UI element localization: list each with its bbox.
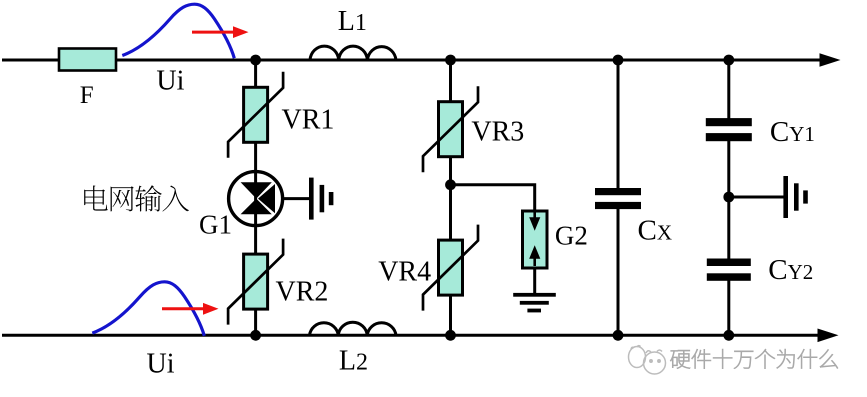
svg-text:L1: L1	[338, 6, 367, 37]
node CY top	[723, 55, 734, 66]
node mid junction VR3/VR4/G2	[445, 179, 456, 190]
svg-text:VR3: VR3	[471, 116, 524, 147]
node bottom-left junction	[250, 330, 261, 341]
svg-text:G1: G1	[199, 210, 232, 240]
surge waveform top (blue)	[122, 4, 234, 58]
fuse F	[59, 49, 116, 71]
wire CX vertical bottom	[617, 208, 620, 335]
gas discharge tube G1	[229, 172, 283, 226]
varistor VR1	[228, 72, 283, 158]
node bottom-mid junction	[445, 330, 456, 341]
gas discharge tube G2	[523, 211, 548, 268]
wire VR4 to bottom	[449, 295, 452, 335]
wire node to G2 (elbow)	[451, 185, 535, 212]
capacitor CY2	[707, 259, 751, 281]
varistor VR4	[423, 225, 478, 311]
node CX top	[613, 55, 624, 66]
ground G1 (chassis)	[309, 178, 333, 220]
varistor VR3	[423, 86, 478, 172]
inductor L2	[310, 322, 397, 335]
ground G2 (earth)	[513, 293, 556, 313]
node CY bottom	[723, 330, 734, 341]
svg-text:Ui: Ui	[147, 349, 175, 380]
wire CY vertical bottom	[727, 280, 730, 335]
wire CY mid	[727, 140, 730, 260]
watermark text 硬件十万个为什么	[670, 349, 837, 368]
node CX bottom	[613, 330, 624, 341]
arrow top right output	[820, 53, 841, 67]
wire CY node to ground	[729, 196, 784, 199]
capacitor CY1	[706, 118, 752, 141]
node top-mid junction	[445, 55, 456, 66]
arrow surge direction top (red)	[192, 26, 249, 38]
wire G2 to ground	[533, 268, 536, 293]
svg-text:F: F	[80, 82, 94, 109]
wire G1 to ground	[283, 197, 311, 200]
node top-left junction	[250, 55, 261, 66]
capacitor CX	[595, 188, 641, 209]
wire VR1 to G1 to VR2	[254, 142, 257, 254]
svg-text:G2: G2	[555, 220, 588, 250]
label grid-input 电网输入	[84, 185, 189, 211]
wire VR3 to node	[449, 157, 452, 240]
svg-text:L2: L2	[339, 345, 368, 376]
wire branch1 vertical top	[254, 60, 257, 88]
ground CY (chassis)	[783, 176, 807, 218]
svg-text:VR1: VR1	[282, 105, 335, 136]
wire VR2 to bottom	[254, 309, 257, 335]
wire CY vertical top	[727, 60, 730, 119]
inductor L1	[310, 46, 396, 60]
arrow surge direction bottom (red)	[162, 303, 219, 315]
surge waveform bottom (blue)	[92, 282, 204, 336]
node CY mid junction	[723, 192, 734, 203]
svg-text:Ui: Ui	[156, 66, 184, 97]
wire top line (L)	[2, 59, 820, 62]
arrow bottom right output	[818, 329, 839, 343]
svg-text:VR2: VR2	[276, 277, 329, 308]
varistor VR2	[228, 239, 283, 325]
watermark logo	[629, 346, 666, 374]
wire branch2 vertical top	[449, 60, 452, 102]
wire CX vertical top	[617, 60, 620, 189]
wire bottom line (N)	[2, 334, 818, 337]
svg-text:VR4: VR4	[378, 256, 431, 287]
